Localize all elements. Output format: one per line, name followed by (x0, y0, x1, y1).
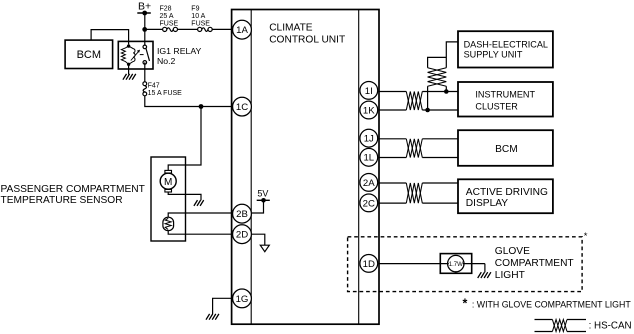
bulb circle 1.7W (448, 255, 464, 271)
pin 1G (233, 289, 252, 308)
svg-text:1C: 1C (236, 102, 248, 113)
svg-text:5V: 5V (257, 188, 268, 198)
wire 5V to pin 2B (252, 200, 264, 213)
wire BCM to relay coil (91, 30, 129, 45)
relay coil top node dot (127, 44, 130, 47)
legend HS-CAN twisted pair symbol (535, 320, 587, 332)
relay link dash (140, 54, 144, 56)
svg-text:2C: 2C (363, 198, 375, 209)
pin 1D (360, 255, 378, 273)
instrument cluster box (458, 82, 553, 117)
svg-text:CONTROL UNIT: CONTROL UNIT (269, 35, 345, 46)
wire pin 1J to BCM (378, 138, 458, 140)
ground triangle inside unit (260, 245, 269, 252)
pin 2D (233, 225, 252, 244)
glove compartment light bulb box (440, 254, 471, 274)
vertical twisted pair symbol (428, 68, 447, 86)
svg-text:CLUSTER: CLUSTER (475, 101, 518, 111)
relay switch blade (146, 49, 150, 61)
svg-text:PASSENGER COMPARTMENT: PASSENGER COMPARTMENT (1, 184, 145, 195)
wire junction down to motor (168, 107, 201, 171)
svg-text:1G: 1G (236, 294, 249, 305)
svg-text:1A: 1A (236, 25, 248, 36)
svg-text:*: * (584, 231, 588, 242)
svg-text:FUSE: FUSE (191, 20, 210, 27)
motor M top terminal (165, 170, 172, 173)
label F47 15 A FUSE (148, 82, 183, 97)
pin 1J (360, 129, 378, 147)
twisted pair symbol 1I/1K (406, 92, 422, 111)
pin 1K (360, 101, 378, 119)
wire pin 2D to internal ground (252, 234, 265, 245)
svg-text:LIGHT: LIGHT (495, 270, 525, 281)
svg-text:SUPPLY UNIT: SUPPLY UNIT (464, 50, 523, 60)
active driving display box (458, 179, 553, 213)
wire thermistor top to pin 2B (168, 213, 231, 217)
passenger compartment temperature sensor box (151, 157, 186, 241)
svg-text:2B: 2B (236, 209, 248, 220)
wire motor to ground (168, 192, 201, 200)
svg-text:BCM: BCM (495, 144, 518, 155)
svg-text:1K: 1K (363, 105, 375, 116)
relay coil resistor branch (121, 46, 128, 64)
ground after motor (194, 200, 204, 206)
pin 2B (233, 204, 252, 223)
svg-text:1I: 1I (365, 86, 373, 97)
relay K IG1 box (118, 41, 153, 69)
thermistor zigzag (165, 218, 171, 229)
svg-text:: WITH GLOVE COMPARTMENT LIGHT: : WITH GLOVE COMPARTMENT LIGHT (472, 299, 631, 309)
svg-text:: HS-CAN: : HS-CAN (589, 321, 632, 332)
relay coil winding branch (129, 46, 135, 64)
thermistor capsule (163, 217, 174, 231)
relay switch contacts (143, 45, 147, 49)
node B+ terminal bar (137, 12, 151, 14)
label IG1 RELAY No.2 (157, 46, 201, 66)
wire pin 1G to ground (213, 298, 232, 314)
junction dot below B+ (142, 11, 147, 16)
svg-text:IG1 RELAY: IG1 RELAY (157, 46, 201, 56)
svg-text:15 A FUSE: 15 A FUSE (148, 90, 183, 97)
glove compartment dashed box (348, 237, 582, 292)
motor M circle (160, 173, 176, 189)
junction dot at fuse branch (142, 27, 147, 32)
junction dot on 1I wire (444, 89, 449, 94)
BCM (right) box (458, 130, 553, 166)
svg-text:COMPARTMENT: COMPARTMENT (495, 258, 574, 269)
motor M bottom terminal (165, 189, 172, 192)
svg-text:F28: F28 (160, 5, 172, 12)
label climate control unit (269, 23, 345, 46)
wire fuse F47 to pin 1C (145, 96, 232, 107)
wire pin 1D to glove compartment light (378, 263, 485, 265)
svg-text:DISPLAY: DISPLAY (466, 198, 508, 209)
wire branch right of vertical twisted pair to dash-electrical supply unit (446, 42, 458, 92)
fuse F28 25A (163, 27, 167, 31)
relay coil arrow (131, 51, 139, 60)
fuse F47 15A (143, 82, 147, 86)
wire pin 1I to instrument cluster (378, 91, 458, 93)
label glove compartment light (495, 246, 574, 281)
fuse F9 10A (198, 27, 202, 31)
junction dot 5V (261, 198, 266, 203)
wire bulb to ground (484, 264, 486, 273)
svg-text:10 A: 10 A (191, 13, 205, 20)
dash-electrical supply unit box (458, 31, 553, 67)
svg-text:GLOVE: GLOVE (495, 246, 530, 257)
label passenger compartment temperature sensor (1, 184, 145, 206)
svg-text:No.2: No.2 (157, 56, 176, 66)
wire pin 2C to active driving display (378, 202, 458, 204)
connector strip line right (358, 10, 360, 325)
climate control unit box (232, 10, 379, 325)
svg-text:BCM: BCM (77, 49, 101, 61)
wire pin 1K to instrument cluster (378, 109, 458, 111)
svg-text:1J: 1J (364, 134, 374, 145)
label F9 10 A FUSE (191, 5, 210, 27)
connector strip line left (250, 10, 252, 325)
svg-text:INSTRUMENT: INSTRUMENT (475, 90, 535, 100)
wire from B+ junction to fuse F28 (145, 28, 163, 30)
pin 1L (360, 148, 378, 166)
node 5V terminal bar (257, 199, 270, 201)
pin 2A (360, 174, 378, 192)
svg-text:F9: F9 (191, 5, 199, 12)
label F28 25 A FUSE (160, 5, 179, 27)
ground after bulb (478, 272, 491, 278)
wire branch left of vertical twisted pair (428, 57, 447, 110)
svg-text:F47: F47 (148, 82, 160, 89)
pin 1I (360, 82, 378, 100)
BCM (left) box (65, 40, 113, 68)
svg-text:CLIMATE: CLIMATE (269, 23, 313, 34)
junction dot on 1K wire (425, 108, 430, 113)
wire B+ vertical down to relay switch (144, 13, 146, 45)
twisted pair symbol 2A/2C (406, 183, 422, 203)
svg-text:M: M (164, 177, 172, 188)
svg-text:B+: B+ (138, 0, 151, 12)
svg-text:1.7W: 1.7W (449, 262, 463, 268)
wire pin 2A to active driving display (378, 182, 458, 184)
twisted pair symbol 1J/1L (406, 139, 422, 158)
svg-text:TEMPERATURE SENSOR: TEMPERATURE SENSOR (1, 195, 123, 206)
svg-text:1D: 1D (363, 259, 375, 270)
wire relay switch to fuse F47 (144, 62, 146, 81)
svg-text:FUSE: FUSE (160, 20, 179, 27)
pin 2C (360, 194, 378, 212)
ground under relay coil (123, 74, 136, 80)
wire relay coil to ground (128, 64, 130, 74)
wire thermistor bottom to pin 2D (168, 231, 231, 235)
svg-text:ACTIVE DRIVING: ACTIVE DRIVING (466, 187, 548, 198)
svg-text:DASH-ELECTRICAL: DASH-ELECTRICAL (464, 40, 548, 50)
svg-text:2A: 2A (363, 178, 375, 189)
wire pin 1L to BCM (378, 157, 458, 159)
svg-text:1L: 1L (363, 153, 374, 164)
svg-text:*: * (463, 297, 468, 311)
pin 1A (233, 20, 252, 39)
relay coil bottom node dot (127, 63, 130, 66)
wire fuse F9 to pin 1A (212, 28, 231, 30)
pin 1C (233, 97, 252, 116)
svg-text:2D: 2D (236, 230, 248, 241)
wire between fuses (178, 28, 198, 30)
ground at pin 1G (206, 314, 219, 320)
junction dot on 1C wire (199, 104, 204, 109)
svg-text:25 A: 25 A (160, 13, 174, 20)
